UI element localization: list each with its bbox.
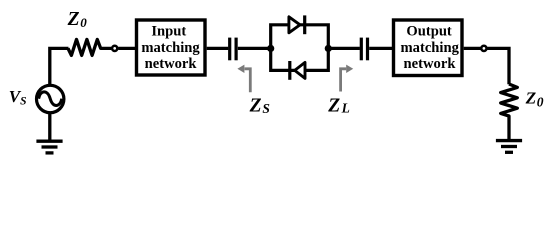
arrow ZS (gray, bent pointing left) bbox=[237, 65, 250, 93]
wire: C1 to left node of diode pair bbox=[238, 47, 271, 50]
wire: output box to node circle bbox=[464, 47, 481, 50]
resistor Z0 (load, vertical) bbox=[501, 84, 518, 141]
svg-text:matching: matching bbox=[141, 40, 200, 56]
wire: source top up and right to series resistor bbox=[50, 48, 69, 84]
svg-text:Output: Output bbox=[406, 24, 452, 40]
input box text bbox=[141, 24, 200, 73]
wire: node to corner down to load resistor bbox=[487, 48, 509, 84]
arrow ZL (gray, bent pointing right) bbox=[341, 65, 354, 92]
wire: node to input box bbox=[118, 47, 135, 50]
ground (right) bbox=[496, 141, 522, 153]
wire: right node to capacitor C2 bbox=[328, 47, 360, 50]
ground (left) bbox=[36, 141, 62, 153]
wire: input box to capacitor C1 bbox=[207, 47, 229, 50]
node dot (right of diode pair) bbox=[325, 45, 332, 52]
resistor Z0 (series, left) bbox=[68, 39, 111, 55]
node: open circle after Z0 bbox=[112, 46, 117, 51]
voltage source VS bbox=[37, 85, 64, 112]
capacitor C2 (series) bbox=[361, 38, 367, 61]
capacitor C1 (series) bbox=[230, 38, 236, 61]
diode D1 (top, pointing right) bbox=[289, 15, 305, 34]
wire: diode loop frame bbox=[271, 25, 329, 71]
wire: source bottom to ground bbox=[48, 113, 51, 142]
output matching network box bbox=[394, 20, 463, 76]
output box text bbox=[401, 24, 460, 73]
svg-text:Input: Input bbox=[151, 24, 186, 40]
input matching network box bbox=[137, 20, 206, 75]
svg-text:network: network bbox=[145, 56, 198, 72]
diode D2 (bottom, pointing left) bbox=[290, 61, 305, 80]
node: open circle after output box bbox=[481, 46, 486, 51]
svg-text:network: network bbox=[404, 56, 457, 72]
svg-text:matching: matching bbox=[401, 40, 460, 56]
wire: C2 to output box bbox=[369, 47, 392, 50]
node dot (left of diode pair) bbox=[267, 45, 274, 52]
